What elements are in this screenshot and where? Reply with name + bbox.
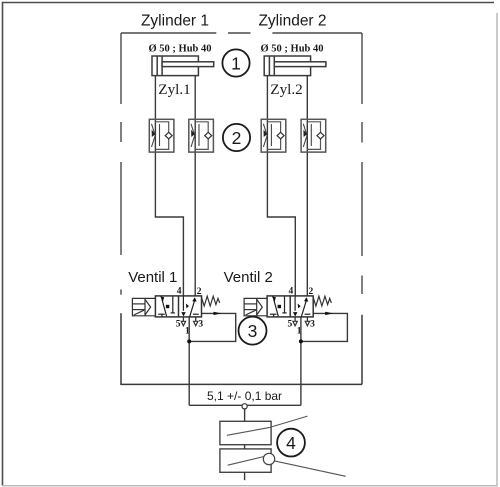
callout circle 1 xyxy=(222,49,249,76)
service unit gauge circle xyxy=(263,453,274,464)
flow control valve FC4 xyxy=(301,119,326,152)
svg-text:3: 3 xyxy=(198,320,203,330)
cylinder Zyl.2 xyxy=(264,56,326,76)
service unit box B xyxy=(220,449,271,472)
wire cylinder1 rod-end line to valve1 port 2 xyxy=(194,76,196,296)
directional valve V2 xyxy=(244,286,347,343)
svg-text:4: 4 xyxy=(177,286,182,296)
svg-text:Zyl.1: Zyl.1 xyxy=(158,81,190,98)
svg-text:2: 2 xyxy=(197,287,202,297)
service unit box A xyxy=(220,421,271,444)
valve1 pilot actuator with manual override xyxy=(132,298,155,315)
cylinder Zyl.1 xyxy=(152,56,214,76)
wire below service unit xyxy=(244,472,246,480)
wire cylinder1 cap-end line to valve1 port 4 xyxy=(155,76,183,296)
valve1 left square flow paths xyxy=(158,296,175,316)
svg-text:Ø 50 ; Hub 40: Ø 50 ; Hub 40 xyxy=(149,43,212,54)
wire between service boxes xyxy=(244,445,246,449)
svg-text:1: 1 xyxy=(185,327,190,337)
svg-text:2: 2 xyxy=(232,128,242,148)
dashed signal frame top edge xyxy=(121,33,362,295)
svg-text:Zylinder 1: Zylinder 1 xyxy=(141,12,209,29)
svg-text:Ø 50 ; Hub 40: Ø 50 ; Hub 40 xyxy=(261,43,324,54)
callout circle 4 xyxy=(277,429,305,457)
svg-text:Zyl.2: Zyl.2 xyxy=(270,81,302,98)
wire cylinder2 rod-end line to valve2 port 2 xyxy=(306,76,308,296)
wire valve2 port1 supply drop xyxy=(300,317,302,405)
valve1 junction node xyxy=(187,339,191,343)
svg-text:Ventil 2: Ventil 2 xyxy=(224,269,273,286)
valve1 right square flow paths xyxy=(183,296,198,317)
wire pilot line bottom solid xyxy=(120,383,362,385)
service unit box B pointer xyxy=(228,457,264,466)
svg-text:5,1 +/- 0,1 bar: 5,1 +/- 0,1 bar xyxy=(207,389,282,403)
callout circle 2 xyxy=(223,124,250,151)
svg-text:4: 4 xyxy=(286,433,296,453)
dashed signal frame left edge xyxy=(120,33,122,295)
svg-text:Zylinder 2: Zylinder 2 xyxy=(258,12,326,29)
svg-text:Ventil 1: Ventil 1 xyxy=(128,269,177,286)
valve1 port 3 exhaust xyxy=(195,317,197,321)
valve1 pilot loop wire xyxy=(189,313,236,341)
service unit box A pointer xyxy=(227,416,308,435)
valve1 port 5 exhaust xyxy=(182,317,184,321)
wire pilot line left solid xyxy=(120,313,122,384)
directional valve V1 xyxy=(132,286,235,343)
dashed signal frame right edge xyxy=(361,33,363,294)
svg-text:3: 3 xyxy=(248,321,258,341)
wire valve1 port1 supply drop xyxy=(188,317,190,405)
wire node to service unit xyxy=(244,409,246,421)
leader from gauge xyxy=(275,461,346,476)
svg-text:1: 1 xyxy=(231,53,241,73)
flow control valve FC3 xyxy=(261,119,286,152)
wire supply manifold xyxy=(189,404,301,406)
wire cylinder2 cap-end line to valve2 port 4 xyxy=(267,76,295,296)
callout circle 3 xyxy=(239,317,267,345)
valve1 spring xyxy=(202,296,220,306)
valve1 pilot arrow xyxy=(214,312,222,315)
node supply tap circle xyxy=(242,404,247,409)
flow control valve FC1 xyxy=(149,119,174,152)
wire pilot line right solid xyxy=(361,315,363,385)
svg-text:5: 5 xyxy=(176,320,181,330)
valve1 body xyxy=(155,296,201,317)
flow control valve FC2 xyxy=(189,119,214,152)
